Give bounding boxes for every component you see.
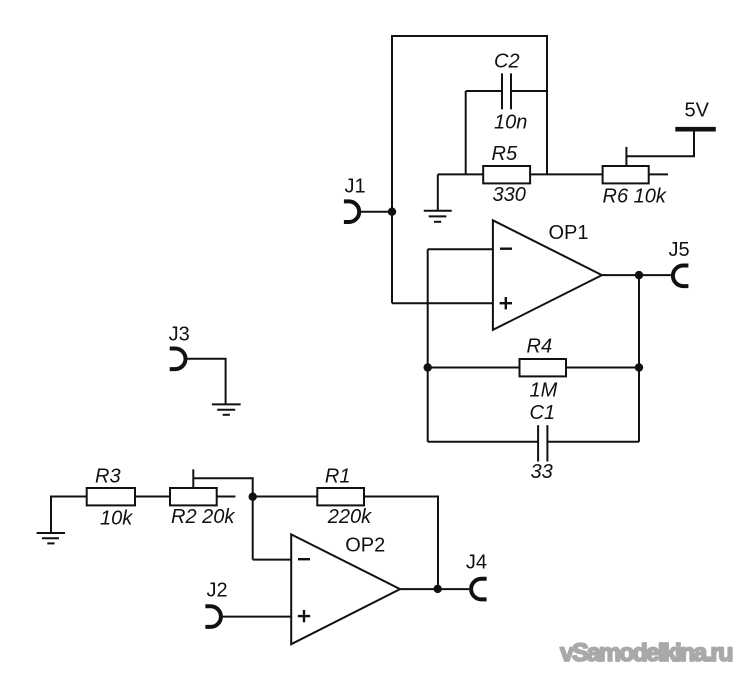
wire: R4 left lead (428, 367, 520, 369)
resistor R6 (trimmer) (603, 166, 649, 183)
svg-text:OP1: OP1 (549, 222, 589, 244)
OP1 plus pin mark (500, 297, 512, 309)
wire: OP1 output to J5 (602, 274, 671, 276)
svg-text:OP2: OP2 (345, 534, 385, 556)
svg-text:R1: R1 (325, 466, 351, 488)
wire: OP2 inverting input (253, 559, 292, 561)
capacitor C1 (538, 425, 547, 461)
svg-text:R3: R3 (95, 466, 121, 488)
wire: ground to R5 left (438, 173, 483, 175)
wire: C1 left lead (428, 441, 538, 443)
resistor R3 (87, 488, 135, 505)
wire: inverting node down to R4/C1 left (427, 249, 429, 442)
wire: J3 to ground (186, 359, 226, 405)
wire: feedback loop from J1 node up and over to R5/R6 net (392, 36, 547, 303)
wire: R6 wiper tap (625, 147, 627, 166)
ground (J3) (212, 404, 241, 414)
wire: OP2 output to J4 (400, 588, 469, 590)
svg-text:R6 10k: R6 10k (603, 185, 667, 207)
connector J4 (471, 579, 487, 600)
op-amp OP2 (291, 534, 400, 644)
svg-text:J1: J1 (345, 176, 366, 198)
connector J5 (673, 266, 689, 287)
wire: R4 right lead (566, 367, 639, 369)
svg-text:vSamodelkina.ru: vSamodelkina.ru (560, 639, 732, 667)
OP2 minus pin mark (298, 558, 310, 560)
wire: R6 wiper to 5V (626, 131, 694, 156)
resistor R2 (trimmer) (170, 488, 217, 505)
connector J2 (205, 606, 221, 627)
svg-text:R5: R5 (492, 143, 518, 165)
svg-text:10k: 10k (100, 507, 133, 529)
svg-text:R2 20k: R2 20k (171, 506, 235, 528)
power 5V bar (675, 127, 716, 132)
wire: R5 right to R6 left (530, 173, 603, 175)
resistor R1 (317, 488, 364, 505)
OP2 plus pin mark (298, 610, 310, 622)
op-amp OP1 (493, 220, 602, 330)
svg-text:1M: 1M (530, 379, 558, 401)
svg-text:J4: J4 (466, 552, 487, 574)
connector J3 (170, 349, 186, 370)
node: R4 right junction (635, 363, 643, 371)
wire: R6 unused stub (649, 173, 668, 175)
wire: C2 right lead (511, 90, 547, 92)
wire: junction to R1 (253, 496, 318, 498)
svg-text:J2: J2 (207, 580, 228, 602)
wire: R3 to R2 (135, 496, 170, 498)
svg-text:10n: 10n (494, 111, 527, 133)
svg-text:33: 33 (531, 461, 553, 483)
svg-text:R4: R4 (527, 336, 553, 358)
wire: J2 to OP2 non-inverting input (220, 616, 291, 618)
node: OP2 inverting junction (249, 493, 257, 501)
wire: R2 unused stub (217, 496, 236, 498)
wire: C1 right lead (547, 441, 639, 443)
wire: R1 right and down to OP2 output (364, 497, 438, 589)
wire: OP1 inverting input (428, 248, 493, 250)
ground (near R5) (424, 211, 452, 222)
wire: output node down to R4/C1 right (638, 275, 640, 442)
wire: C2 left lead (466, 90, 502, 92)
svg-text:C2: C2 (494, 51, 520, 73)
svg-text:330: 330 (493, 184, 526, 206)
wire: R2 wiper over to inverting node (194, 478, 253, 559)
wire: ground riser at R5 (437, 174, 439, 210)
OP1 minus pin mark (500, 247, 512, 249)
connector J1 (344, 201, 359, 222)
svg-text:J5: J5 (669, 239, 690, 261)
wire: ground riser to R3 (51, 497, 87, 534)
node: J1 junction (388, 208, 396, 216)
svg-text:C1: C1 (530, 402, 556, 424)
wire: C2 left branch down to R5 left net (465, 91, 467, 174)
node: OP2 output junction (434, 585, 442, 593)
wire: OP1 non-inverting input from J1 vertical (392, 302, 493, 304)
ground (R3 left) (37, 533, 65, 543)
svg-text:220k: 220k (327, 506, 372, 528)
node: OP1 output junction (635, 271, 643, 279)
resistor R4 (520, 359, 567, 376)
resistor R5 (483, 166, 530, 183)
wire: J1 to node (359, 211, 392, 213)
node: R4 left junction (424, 363, 432, 371)
svg-text:J3: J3 (169, 324, 190, 346)
wire: R2 wiper tap (192, 469, 194, 488)
capacitor C2 (502, 73, 511, 109)
svg-text:5V: 5V (685, 100, 710, 122)
